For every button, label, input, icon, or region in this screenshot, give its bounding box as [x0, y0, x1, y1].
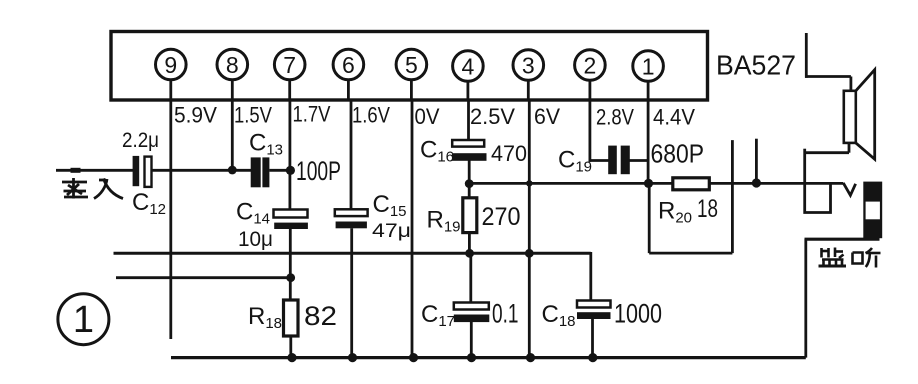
pin 2 circle: [575, 50, 606, 81]
junction node rail R18: [287, 353, 296, 362]
svg-text:8: 8: [226, 52, 239, 78]
capacitor C14 bottom plate (filled): [274, 223, 308, 229]
char ting mouth: [853, 253, 863, 264]
resistor R19 body: [463, 198, 477, 233]
pin 9 circle: [156, 49, 187, 80]
svg-text:C15: C15: [373, 191, 407, 220]
input arrowhead: [71, 168, 81, 173]
wire pin5 vertical to ground rail: [411, 100, 414, 358]
svg-text:82: 82: [304, 301, 337, 331]
pin 7 stem: [288, 80, 291, 100]
svg-text:C18: C18: [542, 301, 576, 330]
figure number circle 1: [58, 294, 109, 345]
svg-text:C14: C14: [236, 199, 270, 228]
svg-text:2.8V: 2.8V: [596, 105, 634, 130]
wire ground rail: [171, 356, 806, 359]
svg-text:1.6V: 1.6V: [352, 103, 390, 128]
op-amp IC U1 BA527 body: [111, 32, 708, 101]
pin 8 circle: [217, 49, 248, 80]
svg-text:1.7V: 1.7V: [293, 102, 331, 127]
svg-text:0.1: 0.1: [492, 299, 519, 329]
wire pin7 vertical to C14: [288, 100, 291, 210]
wire C14 to node R18 top: [289, 229, 292, 301]
wire C18 bottom to ground rail: [591, 319, 594, 358]
capacitor C17 top plate (hollow): [454, 303, 489, 310]
wire pin2 vertical: [589, 100, 592, 162]
wire speaker return vertical: [803, 149, 806, 184]
svg-text:100P: 100P: [296, 156, 341, 186]
capacitor C15 bottom plate (filled): [336, 222, 367, 229]
svg-text:2: 2: [584, 52, 597, 78]
wire R20 bypass loop right / stub: [731, 140, 734, 253]
svg-text:3: 3: [522, 52, 535, 78]
wire C19 right to pin1 wire: [630, 159, 650, 162]
resistor R20 body: [673, 178, 710, 190]
svg-text:C17: C17: [421, 301, 455, 330]
svg-text:C12: C12: [132, 189, 166, 218]
jack switch contact V: [843, 183, 855, 195]
pin 4 stem: [466, 81, 469, 100]
svg-text:BA527: BA527: [716, 50, 796, 81]
wire ground to jack sleeve: [805, 238, 880, 241]
wire pin9 vertical: [169, 100, 172, 339]
junction node rail C15: [348, 353, 357, 362]
junction node pin3 tap: [525, 249, 534, 258]
wire pin2 to C19 left: [589, 159, 609, 162]
char shu (left radical che): [62, 181, 87, 184]
pin 5 stem: [410, 80, 413, 100]
junction node R18 top: [286, 273, 295, 282]
wire R20 bypass loop bottom: [649, 252, 732, 255]
char jian bottom dish: [822, 258, 844, 261]
wire C16 bottom to output node: [468, 161, 471, 198]
svg-text:5: 5: [405, 52, 418, 78]
capacitor C13 left plate: [251, 157, 261, 187]
junction node rail pin5: [409, 353, 418, 362]
wire R20 bypass loop left: [648, 183, 651, 253]
junction node C16/R19 output: [465, 179, 474, 188]
pin 6 stem: [347, 80, 350, 100]
svg-text:1: 1: [642, 53, 655, 79]
wire R18 bottom to ground rail: [289, 336, 292, 358]
wire pin8 vertical: [231, 100, 234, 170]
wire pin1 vertical to output node: [647, 100, 650, 183]
svg-text:R19: R19: [427, 207, 461, 236]
earphone jack J1 window: [866, 202, 880, 220]
svg-text:1000: 1000: [614, 299, 662, 329]
label input (Chinese shu-ru) hand-drawn: [62, 178, 123, 199]
char ting axe: [866, 248, 873, 253]
wire speaker bottom horizontal: [805, 151, 849, 154]
svg-text:470: 470: [491, 141, 527, 166]
svg-text:47μ: 47μ: [372, 221, 411, 242]
char jian top-right: [834, 248, 837, 258]
capacitor C16 top plate (hollow): [452, 140, 484, 147]
earphone jack J1 body: [863, 182, 882, 239]
pin 1 circle: [633, 51, 664, 82]
pin 8 stem: [231, 80, 234, 100]
pin 7 circle: [274, 49, 305, 80]
capacitor C19 right plate: [621, 146, 630, 175]
junction node rail pin3: [526, 353, 535, 362]
svg-text:R20: R20: [658, 198, 692, 227]
pin 3 stem: [527, 80, 530, 100]
svg-text:C16: C16: [420, 137, 454, 166]
wire C13 to pin7 node: [269, 169, 290, 172]
capacitor C12 left plate (filled): [133, 156, 140, 186]
char ru: [94, 179, 107, 199]
svg-text:680P: 680P: [651, 139, 705, 169]
resistor R18 body: [284, 300, 299, 336]
speaker LS driver rectangle: [844, 91, 856, 143]
wire speaker top horizontal: [805, 75, 851, 78]
label monitor (Chinese jian-ting) hand-drawn: [819, 248, 881, 268]
speaker LS cone: [856, 70, 875, 160]
svg-text:2.2μ: 2.2μ: [122, 129, 159, 152]
wire input line: [56, 169, 134, 172]
svg-text:4.4V: 4.4V: [653, 105, 695, 130]
svg-text:4: 4: [462, 53, 475, 79]
capacitor C14 top plate (hollow): [274, 210, 308, 218]
junction node rail C17: [467, 353, 476, 362]
svg-text:270: 270: [482, 203, 521, 231]
capacitor C12 right plate (hollow): [145, 157, 152, 187]
wire tap line y=253: [114, 252, 591, 255]
junction node pin1/R20: [644, 179, 653, 188]
wire node to C17: [469, 253, 472, 302]
svg-text:R18: R18: [248, 303, 282, 332]
junction node R19/C17 tap: [465, 249, 474, 258]
junction node pin8/input: [228, 166, 237, 175]
svg-text:0V: 0V: [415, 104, 440, 129]
wire C15 bottom to ground rail: [350, 228, 353, 357]
junction node speaker stub: [752, 178, 761, 187]
wire feedback line y=277.7: [116, 276, 291, 279]
pin 6 circle: [333, 49, 364, 80]
wire pin6 vertical to C15: [350, 100, 353, 210]
capacitor C18 bottom plate (filled): [577, 312, 611, 319]
pin 4 circle: [453, 51, 484, 82]
capacitor C16 bottom plate (filled): [452, 153, 487, 161]
svg-text:C13: C13: [249, 130, 283, 159]
wire ground riser right: [804, 239, 807, 358]
wire stub at node speaker: [755, 139, 758, 184]
jack switch frame below output: [805, 183, 831, 212]
svg-text:9: 9: [164, 52, 177, 78]
char jian top-left: [820, 248, 823, 258]
wire output line y=183.4: [469, 182, 843, 185]
junction node pin3/output (small): [526, 180, 532, 186]
capacitor C17 bottom plate (filled): [454, 315, 490, 323]
svg-text:6: 6: [342, 52, 355, 78]
pin 1 stem: [647, 81, 650, 100]
svg-text:1.5V: 1.5V: [234, 103, 272, 128]
wire C12 to C13: [152, 169, 251, 172]
pin 5 circle: [396, 49, 427, 80]
svg-text:10μ: 10μ: [238, 228, 273, 251]
wire speaker top drop: [850, 77, 853, 92]
svg-text:7: 7: [283, 52, 296, 78]
capacitor C18 top plate (hollow): [577, 301, 611, 308]
svg-text:18: 18: [697, 195, 718, 223]
capacitor C19 left plate: [608, 146, 617, 175]
svg-text:5.9V: 5.9V: [174, 103, 217, 128]
wire C18 top to tap line: [589, 252, 592, 301]
capacitor C13 right plate: [262, 157, 269, 187]
pin 9 stem: [169, 80, 172, 100]
svg-text:2.5V: 2.5V: [470, 104, 515, 129]
wire speaker bottom drop: [848, 143, 851, 153]
junction node pin7/C13: [286, 166, 295, 175]
wire pin3 vertical to ground rail: [528, 100, 531, 358]
svg-text:C19: C19: [558, 147, 592, 176]
wire R19 bottom to node: [468, 233, 471, 254]
pin 3 circle: [513, 50, 544, 81]
wire C17 bottom to ground rail: [470, 322, 473, 358]
svg-text:6V: 6V: [534, 104, 560, 129]
capacitor C15 top plate (hollow): [335, 209, 368, 216]
wire pin4 vertical to C16: [467, 100, 470, 140]
svg-text:1: 1: [73, 299, 94, 341]
pin 2 stem: [589, 80, 592, 100]
junction node rail C18: [588, 353, 597, 362]
wire V+ vertical to speaker top: [805, 33, 808, 78]
